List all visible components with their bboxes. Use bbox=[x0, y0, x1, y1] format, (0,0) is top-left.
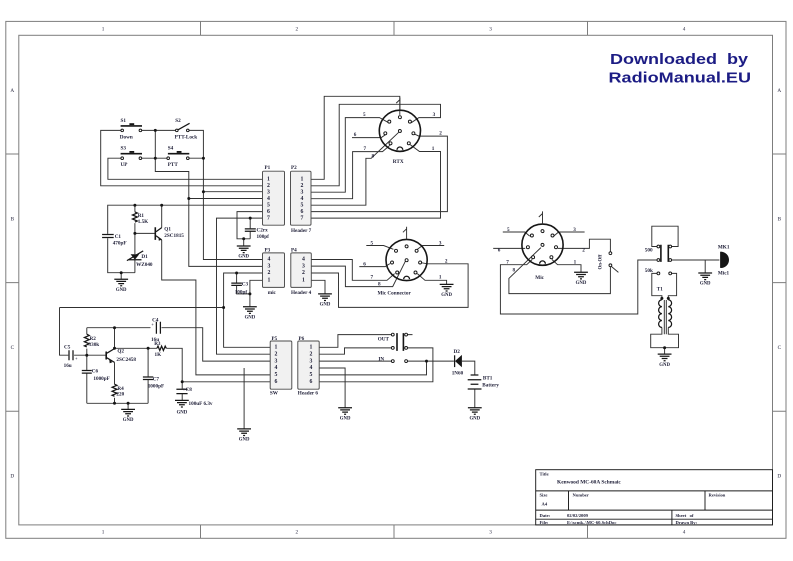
svg-text:2: 2 bbox=[301, 183, 304, 189]
svg-text:4: 4 bbox=[268, 257, 271, 263]
svg-text:P2: P2 bbox=[291, 165, 297, 171]
svg-text:6: 6 bbox=[498, 248, 501, 254]
svg-text:4: 4 bbox=[275, 365, 278, 371]
svg-text:7: 7 bbox=[371, 275, 374, 281]
svg-text:1: 1 bbox=[439, 275, 442, 281]
svg-text:2: 2 bbox=[296, 27, 299, 33]
svg-text:Downloaded by: Downloaded by bbox=[610, 51, 749, 68]
svg-text:S2: S2 bbox=[175, 118, 181, 124]
svg-text:Drawn By:: Drawn By: bbox=[676, 520, 698, 525]
svg-text:1: 1 bbox=[268, 278, 271, 284]
svg-text:GND: GND bbox=[123, 418, 134, 423]
svg-text:3: 3 bbox=[275, 358, 278, 364]
svg-text:4: 4 bbox=[683, 27, 686, 33]
svg-text:1: 1 bbox=[310, 345, 313, 351]
svg-text:5: 5 bbox=[275, 372, 278, 378]
svg-text:5: 5 bbox=[301, 202, 304, 208]
svg-text:C6: C6 bbox=[92, 369, 99, 375]
svg-text:7: 7 bbox=[364, 146, 367, 152]
svg-text:A: A bbox=[10, 88, 14, 94]
svg-text:2: 2 bbox=[302, 270, 305, 276]
svg-text:C7: C7 bbox=[153, 377, 160, 383]
svg-text:R1: R1 bbox=[138, 213, 145, 219]
svg-text:7: 7 bbox=[506, 260, 509, 266]
svg-text:4: 4 bbox=[301, 196, 304, 202]
svg-text:Q1: Q1 bbox=[164, 227, 171, 233]
svg-text:C: C bbox=[11, 345, 15, 351]
svg-text:1: 1 bbox=[574, 260, 577, 266]
svg-text:2: 2 bbox=[268, 270, 271, 276]
svg-text:T1: T1 bbox=[657, 287, 663, 293]
svg-text:GND: GND bbox=[441, 293, 452, 298]
svg-text:2: 2 bbox=[310, 351, 313, 357]
svg-text:E:\scmk..\MC-60.SchDoc: E:\scmk..\MC-60.SchDoc bbox=[567, 520, 616, 525]
svg-text:A: A bbox=[777, 88, 781, 94]
svg-text:5: 5 bbox=[310, 372, 313, 378]
svg-text:Q2: Q2 bbox=[117, 349, 124, 355]
svg-text:Kenwood MC-60A Schmaic: Kenwood MC-60A Schmaic bbox=[557, 479, 621, 485]
svg-text:OUT: OUT bbox=[378, 336, 390, 342]
svg-text:4: 4 bbox=[267, 196, 270, 202]
svg-text:100pf: 100pf bbox=[257, 234, 270, 240]
svg-text:D2: D2 bbox=[454, 349, 461, 355]
svg-text:RTX: RTX bbox=[393, 159, 404, 165]
svg-text:50k: 50k bbox=[645, 268, 653, 274]
svg-text:8: 8 bbox=[513, 268, 516, 274]
svg-text:Down: Down bbox=[120, 135, 133, 141]
svg-text:P5: P5 bbox=[272, 336, 278, 342]
svg-text:3: 3 bbox=[267, 189, 270, 195]
svg-text:4: 4 bbox=[310, 365, 313, 371]
svg-text:IN: IN bbox=[378, 356, 384, 362]
svg-text:BT1: BT1 bbox=[483, 376, 493, 382]
svg-text:6: 6 bbox=[354, 132, 357, 138]
svg-text:SW: SW bbox=[270, 391, 279, 397]
svg-text:B: B bbox=[778, 216, 782, 222]
svg-text:1: 1 bbox=[102, 530, 105, 536]
svg-text:Mic1: Mic1 bbox=[718, 271, 730, 277]
svg-text:5: 5 bbox=[507, 227, 510, 233]
svg-text:Size: Size bbox=[540, 492, 548, 497]
svg-text:+: + bbox=[151, 322, 154, 327]
svg-text:C2rx: C2rx bbox=[257, 228, 269, 234]
svg-text:220: 220 bbox=[116, 392, 124, 398]
svg-text:Title: Title bbox=[540, 471, 549, 476]
svg-text:GND: GND bbox=[576, 281, 587, 286]
svg-text:3: 3 bbox=[310, 358, 313, 364]
svg-text:4: 4 bbox=[302, 257, 305, 263]
svg-text:1000pF: 1000pF bbox=[93, 376, 109, 382]
svg-text:2: 2 bbox=[296, 530, 299, 536]
svg-text:GND: GND bbox=[659, 363, 670, 368]
svg-text:1N60: 1N60 bbox=[452, 371, 464, 377]
svg-text:7: 7 bbox=[267, 215, 270, 221]
svg-text:D1: D1 bbox=[141, 254, 148, 260]
svg-text:1: 1 bbox=[275, 345, 278, 351]
svg-text:GND: GND bbox=[238, 255, 249, 260]
svg-text:B: B bbox=[11, 216, 15, 222]
svg-text:MK1: MK1 bbox=[718, 244, 730, 250]
svg-text:1K: 1K bbox=[155, 352, 162, 358]
svg-text:GND: GND bbox=[116, 288, 127, 293]
svg-text:3: 3 bbox=[573, 227, 576, 233]
svg-text:5: 5 bbox=[371, 241, 374, 247]
svg-text:16u: 16u bbox=[64, 363, 72, 369]
svg-text:R3: R3 bbox=[154, 341, 161, 347]
svg-text:2: 2 bbox=[267, 183, 270, 189]
svg-text:100uF 6.3v: 100uF 6.3v bbox=[189, 401, 213, 407]
svg-text:UP: UP bbox=[121, 162, 129, 168]
svg-text:A4: A4 bbox=[542, 502, 548, 507]
svg-text:6: 6 bbox=[301, 209, 304, 215]
svg-text:3: 3 bbox=[439, 241, 442, 247]
svg-text:6: 6 bbox=[267, 209, 270, 215]
svg-text:1: 1 bbox=[302, 278, 305, 284]
svg-text:6: 6 bbox=[275, 379, 278, 385]
svg-text:Header 4: Header 4 bbox=[291, 290, 312, 296]
svg-text:Number: Number bbox=[573, 492, 589, 497]
svg-text:1: 1 bbox=[102, 27, 105, 33]
svg-text:Header 7: Header 7 bbox=[291, 228, 312, 234]
svg-text:3: 3 bbox=[301, 189, 304, 195]
svg-text:S4: S4 bbox=[168, 146, 174, 152]
svg-text:+C8: +C8 bbox=[183, 387, 193, 393]
svg-text:500: 500 bbox=[645, 248, 653, 254]
svg-text:P1: P1 bbox=[265, 165, 271, 171]
svg-text:GND: GND bbox=[700, 282, 711, 287]
svg-text:GND: GND bbox=[469, 416, 480, 421]
svg-text:1000pF: 1000pF bbox=[148, 384, 164, 390]
svg-text:1: 1 bbox=[432, 146, 435, 152]
svg-text:3: 3 bbox=[433, 112, 436, 118]
svg-text:330k: 330k bbox=[89, 342, 100, 348]
svg-text:Sheet of: Sheet of bbox=[676, 513, 694, 518]
svg-text:P3: P3 bbox=[265, 247, 271, 253]
svg-text:D: D bbox=[10, 474, 14, 480]
svg-text:File:: File: bbox=[540, 520, 549, 525]
svg-text:Mic Connector: Mic Connector bbox=[378, 291, 412, 297]
svg-text:P6: P6 bbox=[299, 336, 305, 342]
svg-text:6: 6 bbox=[363, 262, 366, 268]
svg-text:GND: GND bbox=[177, 411, 188, 416]
svg-text:2SC1815: 2SC1815 bbox=[164, 233, 184, 239]
svg-text:2SC2458: 2SC2458 bbox=[116, 357, 136, 363]
svg-text:D: D bbox=[777, 474, 781, 480]
svg-text:100pf: 100pf bbox=[235, 289, 248, 295]
svg-text:GND: GND bbox=[239, 438, 250, 443]
svg-text:C: C bbox=[778, 345, 782, 351]
svg-text:1: 1 bbox=[267, 177, 270, 183]
svg-text:3: 3 bbox=[302, 263, 305, 269]
svg-text:mic: mic bbox=[268, 290, 277, 296]
svg-text:Revision: Revision bbox=[709, 492, 726, 497]
svg-text:5: 5 bbox=[363, 112, 366, 118]
svg-text:Battery: Battery bbox=[482, 383, 499, 389]
svg-text:PTT: PTT bbox=[168, 162, 179, 168]
svg-text:C3: C3 bbox=[242, 281, 249, 287]
svg-text:1: 1 bbox=[301, 177, 304, 183]
svg-text:S1: S1 bbox=[121, 118, 127, 124]
svg-text:C1: C1 bbox=[115, 234, 122, 240]
svg-text:3: 3 bbox=[489, 27, 492, 33]
svg-text:GND: GND bbox=[245, 316, 256, 321]
svg-text:+: + bbox=[75, 356, 78, 361]
svg-text:Date:: Date: bbox=[540, 513, 551, 518]
svg-text:8: 8 bbox=[372, 153, 375, 159]
svg-text:GND: GND bbox=[320, 303, 331, 308]
svg-text:Header 6: Header 6 bbox=[298, 391, 319, 397]
svg-text:On-Off: On-Off bbox=[599, 254, 604, 269]
svg-text:S3: S3 bbox=[121, 146, 127, 152]
svg-text:P4: P4 bbox=[291, 247, 297, 253]
svg-text:8: 8 bbox=[378, 282, 381, 288]
svg-text:3: 3 bbox=[268, 263, 271, 269]
svg-text:3: 3 bbox=[489, 530, 492, 536]
svg-text:1.5K: 1.5K bbox=[138, 219, 149, 225]
svg-text:Mic: Mic bbox=[535, 275, 544, 281]
svg-text:7: 7 bbox=[301, 215, 304, 221]
svg-text:470pF: 470pF bbox=[113, 240, 127, 246]
svg-text:GND: GND bbox=[340, 416, 351, 421]
svg-text:5: 5 bbox=[267, 202, 270, 208]
svg-text:4: 4 bbox=[683, 530, 686, 536]
svg-text:6: 6 bbox=[310, 379, 313, 385]
svg-text:02/02/2009: 02/02/2009 bbox=[567, 513, 589, 518]
svg-text:2: 2 bbox=[445, 259, 448, 265]
svg-text:C5: C5 bbox=[64, 345, 71, 351]
svg-text:WZ040: WZ040 bbox=[136, 262, 153, 268]
svg-text:2: 2 bbox=[275, 351, 278, 357]
svg-text:RadioManual.EU: RadioManual.EU bbox=[609, 70, 752, 87]
svg-text:2: 2 bbox=[582, 248, 585, 254]
svg-text:PTT-Lock: PTT-Lock bbox=[175, 135, 198, 141]
svg-text:2: 2 bbox=[439, 131, 442, 137]
